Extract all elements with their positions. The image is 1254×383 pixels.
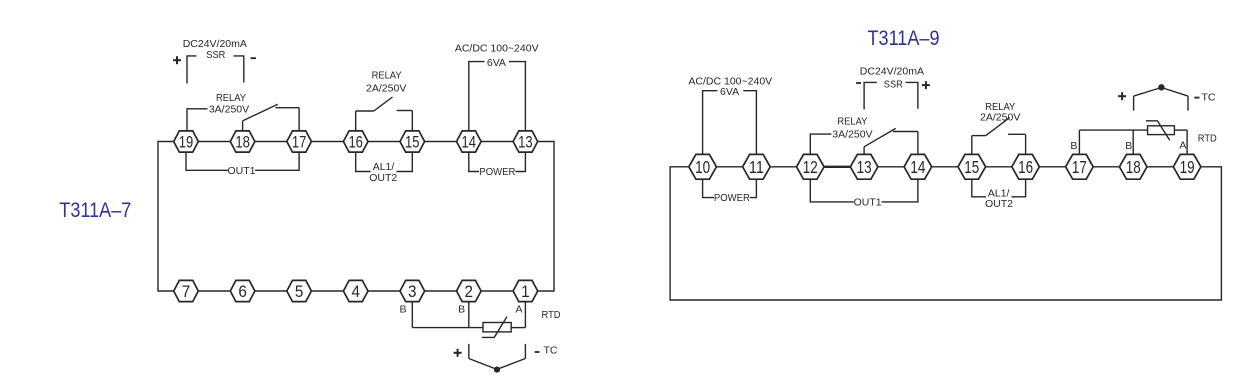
terminal 10 [689,154,717,179]
terminal 12 [797,154,825,179]
svg-text:T311A–9: T311A–9 [868,27,940,50]
wire power right to 11 [743,91,756,155]
svg-text:DC24V/20mA: DC24V/20mA [183,38,247,50]
svg-text:RTD: RTD [542,309,561,321]
wire OUT1 right [255,152,299,170]
terminal 17 [287,131,312,152]
terminal 13 [513,131,538,152]
wire [311,290,343,292]
wire power right to 13 [509,62,526,131]
svg-text:4: 4 [351,282,360,301]
wire left loop [158,142,174,292]
svg-text:A: A [515,304,522,316]
wire [824,166,850,168]
wire OUT1 left [810,179,853,202]
wire right loop [538,142,554,292]
svg-text:13: 13 [857,157,872,177]
plus sign TC + [454,349,462,357]
plus sign SSR + [922,81,930,89]
terminal 18 [1119,154,1147,179]
svg-text:6VA: 6VA [720,86,739,98]
svg-text:5: 5 [295,282,304,301]
svg-text:14: 14 [910,157,925,177]
terminal 4 [343,280,368,301]
svg-text:3: 3 [408,282,417,301]
wire above 19 [1186,130,1188,154]
wire SSR left bracket [187,56,197,84]
svg-text:RTD: RTD [1198,133,1217,145]
wire SSR right bracket to 14 [906,82,918,108]
wire below 2 [468,302,470,328]
wire POWER left [469,152,479,171]
terminal 7 [174,280,199,301]
svg-text:10: 10 [695,157,710,177]
thermocouple TC symbol [469,344,526,373]
switch relay1 K1 [243,104,300,131]
thermocouple TC symbol [1134,84,1188,110]
plus sign SSR + [173,56,181,64]
svg-text:3A/250V: 3A/250V [832,129,872,141]
wire [716,166,742,168]
svg-text:SSR: SSR [884,78,903,90]
svg-text:2A/250V: 2A/250V [980,112,1020,124]
wire [932,166,958,168]
terminal 14 [457,131,482,152]
wire POWER right [515,152,525,171]
RTD sensor symbol [482,317,511,338]
switch relay K1 [864,128,918,154]
wire to RTD [412,327,483,329]
svg-text:B: B [1125,140,1132,152]
RTD sensor symbol [1146,121,1175,141]
wire [1147,166,1173,168]
terminal 19 [1173,154,1201,179]
wire relay1 bracket to 19 [187,109,208,131]
wire [986,166,1012,168]
terminal 14 [904,154,932,179]
svg-text:15: 15 [405,133,420,152]
wire SSR left bracket to 13 [864,82,877,109]
svg-text:7: 7 [182,282,191,301]
svg-text:13: 13 [518,133,533,152]
wire outer loop [670,167,1221,300]
wire [481,290,513,292]
terminal 19 [174,131,199,152]
svg-text:RELAY: RELAY [216,92,246,104]
switch relay2 K2 [356,97,413,131]
wire [198,290,230,292]
wire AL1 left [356,152,371,171]
terminal 15 [400,131,425,152]
wire power left to 14 [469,62,485,131]
wire [425,290,457,292]
minus sign SSR - [856,82,861,84]
svg-text:TC: TC [1202,91,1216,103]
minus sign TC - [1194,97,1199,99]
wire [1093,166,1119,168]
svg-text:B: B [458,304,465,316]
wire OUT1 left [186,152,228,170]
wire [311,141,343,143]
svg-text:17: 17 [292,133,307,152]
terminal 18 [230,131,255,152]
svg-text:12: 12 [803,157,818,177]
svg-text:A: A [1179,140,1186,152]
wire OUT1 right [882,179,918,202]
minus sign SSR - [251,57,257,59]
wire [198,141,230,143]
wire [878,166,904,168]
svg-text:B: B [399,304,406,316]
svg-text:POWER: POWER [479,166,515,178]
switch relay K2 [972,118,1026,155]
wire power left to 10 [703,91,718,155]
wire SSR right bracket [234,56,244,83]
wire [255,290,287,292]
svg-text:RELAY: RELAY [837,116,867,128]
svg-text:14: 14 [462,133,477,152]
svg-text:AC/DC 100~240V: AC/DC 100~240V [455,43,539,55]
wire [368,290,400,292]
terminal 3 [400,280,425,301]
svg-text:18: 18 [1126,157,1141,177]
svg-text:POWER: POWER [714,192,750,204]
terminal 11 [743,154,771,179]
svg-text:TC: TC [544,345,558,357]
terminal 1 [513,280,538,301]
terminal 6 [230,280,255,301]
svg-text:18: 18 [235,133,250,152]
svg-text:B: B [1070,140,1077,152]
svg-text:1: 1 [521,282,530,301]
plus sign TC + [1118,92,1126,100]
svg-text:OUT1: OUT1 [854,197,882,209]
svg-text:6: 6 [238,282,247,301]
wire [770,166,796,168]
terminal 13 [850,154,878,179]
svg-text:2: 2 [465,282,474,301]
svg-text:19: 19 [179,133,194,152]
wire relay bracket to 12 [810,134,831,154]
svg-text:T311A–7: T311A–7 [59,199,131,222]
svg-text:17: 17 [1072,157,1087,177]
svg-text:15: 15 [964,157,979,177]
wire [481,141,513,143]
wire above 17 [1078,130,1080,154]
svg-text:OUT2: OUT2 [369,172,397,184]
svg-text:DC24V/20mA: DC24V/20mA [860,65,924,77]
wire AL1 right [397,152,413,171]
svg-text:OUT1: OUT1 [227,165,255,177]
wire [368,141,400,143]
wire POWER left [703,179,714,197]
svg-text:6VA: 6VA [487,57,506,69]
svg-text:11: 11 [749,157,764,177]
wire RTD to 1 [511,327,525,329]
terminal 16 [1012,154,1040,179]
wire above 18 [1132,130,1134,154]
wire RTD to 19 [1174,129,1187,131]
svg-text:19: 19 [1180,157,1195,177]
wire [255,141,287,143]
wire POWER right [750,179,757,197]
terminal 15 [958,154,986,179]
svg-text:16: 16 [1018,157,1033,177]
wire below 3 [411,302,413,328]
svg-text:16: 16 [348,133,363,152]
svg-text:RELAY: RELAY [372,69,402,81]
wire 17 to RTD [1079,129,1147,131]
wire below 1 [524,302,526,328]
wire AL1 right [1012,179,1026,197]
terminal 16 [343,131,368,152]
svg-text:SSR: SSR [206,49,225,61]
terminal 17 [1066,154,1094,179]
wire [1039,166,1065,168]
wire AL1 left [972,179,986,197]
wire [425,141,457,143]
minus sign TC - [535,351,540,353]
svg-text:2A/250V: 2A/250V [366,82,406,94]
svg-text:3A/250V: 3A/250V [209,103,249,115]
svg-text:OUT2: OUT2 [985,198,1013,210]
terminal 2 [457,280,482,301]
terminal 5 [287,280,312,301]
